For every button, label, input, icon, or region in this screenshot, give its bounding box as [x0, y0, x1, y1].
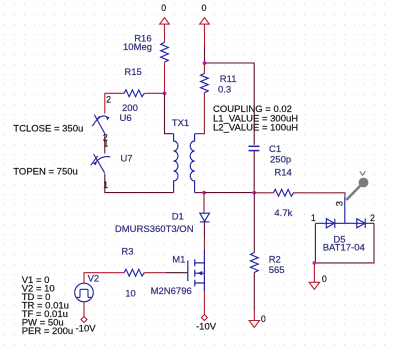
- svg-text:565: 565: [269, 265, 285, 276]
- diode D1: [200, 213, 210, 222]
- D5 package box: [315, 223, 374, 263]
- wire TX1 secondary bottom to node C: [195, 192, 204, 194]
- svg-text:M1: M1: [172, 254, 185, 265]
- ground 0 (below D5): [309, 274, 327, 289]
- resistor R2: [253, 193, 255, 253]
- wire R16 to node A: [164, 62, 166, 93]
- svg-text:R15: R15: [124, 67, 141, 78]
- ground 0 (top, above node B): [200, 3, 210, 24]
- wire M1 source to -10V: [203, 291, 205, 315]
- svg-text:0: 0: [322, 274, 327, 284]
- wire node A down to TX1 primary top: [165, 93, 174, 133]
- wire D1 to M1 drain: [203, 222, 205, 238]
- transformer TX1 primary winding: [174, 134, 178, 193]
- diode pair D5: [315, 219, 374, 228]
- resistor R16: [161, 42, 169, 62]
- node D junction: [252, 191, 256, 195]
- svg-text:R3: R3: [121, 247, 133, 258]
- resistor R15: [124, 90, 144, 97]
- transformer TX1 secondary winding: [190, 134, 194, 193]
- wire ground to R16: [164, 24, 166, 42]
- svg-text:U6: U6: [120, 113, 132, 124]
- wire node D to R14: [254, 192, 273, 194]
- node A junction: [163, 91, 167, 95]
- wire R15 left pin to corner: [105, 92, 124, 94]
- ground 0 (below R2): [249, 314, 266, 328]
- svg-text:V2: V2: [88, 274, 100, 285]
- wire R3 to M1 gate: [144, 272, 166, 274]
- ground 0 (top left, above R16): [160, 3, 170, 24]
- node E junction (D5 box corner): [313, 261, 317, 265]
- wire R15 right pin to node A: [144, 92, 164, 94]
- svg-text:2: 2: [370, 213, 375, 223]
- wire R14 to D5 pin 3 corner: [293, 193, 345, 197]
- switch U6 (tClose): [92, 115, 109, 133]
- svg-text:0: 0: [261, 314, 266, 324]
- wire ground to node B: [204, 24, 206, 47]
- voltage source V2: [75, 283, 94, 302]
- wire C1 bottom to node D: [253, 151, 255, 193]
- wire node B to C1 branch (right then down): [205, 63, 255, 145]
- svg-text:TCLOSE = 350u: TCLOSE = 350u: [13, 124, 83, 135]
- svg-text:1: 1: [311, 213, 316, 223]
- svg-text:1: 1: [103, 180, 108, 190]
- svg-text:3: 3: [334, 201, 345, 206]
- svg-text:R14: R14: [274, 167, 291, 178]
- svg-text:D1: D1: [172, 212, 184, 223]
- node B junction: [203, 61, 207, 65]
- wire R2 to ground: [253, 273, 255, 311]
- svg-text:10: 10: [125, 289, 136, 300]
- svg-text:0.3: 0.3: [218, 85, 231, 96]
- resistor R14: [273, 189, 293, 196]
- wire node E to ground: [313, 263, 315, 282]
- svg-text:-10V: -10V: [76, 323, 97, 334]
- wire D1 top pin from node C: [203, 193, 205, 213]
- svg-text:0: 0: [161, 3, 166, 13]
- svg-text:M2N6796: M2N6796: [151, 286, 192, 297]
- svg-text:TX1: TX1: [172, 118, 189, 129]
- svg-text:BAT17-04: BAT17-04: [323, 243, 365, 254]
- svg-text:DMURS360T3/ON: DMURS360T3/ON: [115, 224, 194, 235]
- svg-text:C1: C1: [269, 144, 281, 155]
- wire corner down to U6: [104, 93, 106, 113]
- svg-text:2: 2: [106, 95, 111, 105]
- svg-text:4.7k: 4.7k: [274, 208, 292, 219]
- voltage probe marker: [346, 171, 368, 200]
- svg-text:R11: R11: [220, 74, 237, 85]
- svg-text:-10V: -10V: [196, 321, 217, 332]
- capacitor C1: [249, 146, 260, 150]
- MOSFET M1: [188, 250, 205, 291]
- svg-text:TOPEN = 750u: TOPEN = 750u: [13, 167, 78, 178]
- svg-text:10Meg: 10Meg: [123, 42, 152, 53]
- svg-text:250p: 250p: [270, 155, 291, 166]
- resistor R3: [124, 269, 144, 276]
- -10V terminal (V2): [81, 317, 87, 323]
- switch U7 (tOpen): [91, 154, 110, 173]
- svg-text:0: 0: [202, 3, 207, 13]
- wire V2 bottom to -10V: [83, 302, 85, 317]
- -10V terminal (M1): [201, 315, 207, 321]
- resistor R11: [203, 63, 205, 73]
- wire V2 top to R3: [84, 273, 124, 284]
- wire U6 to U7: [104, 133, 106, 154]
- wire U7 down and along bottom to TX1 primary bottom: [105, 174, 174, 193]
- svg-text:PER = 200u: PER = 200u: [22, 326, 73, 337]
- node C junction: [202, 191, 206, 195]
- svg-text:L2_VALUE = 100uH: L2_VALUE = 100uH: [213, 123, 298, 134]
- wire node C to node D: [204, 192, 254, 194]
- wire D5 pin3 vertical: [344, 197, 346, 224]
- svg-text:U7: U7: [120, 154, 132, 165]
- wire R11 to TX1 secondary top: [195, 93, 205, 134]
